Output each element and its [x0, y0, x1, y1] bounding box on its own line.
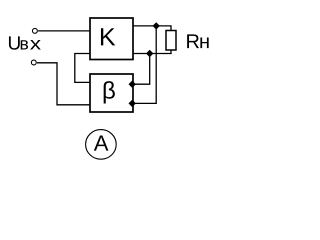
junction dot node 3 — [129, 81, 136, 88]
amplifier block K — [90, 18, 133, 60]
feedback block β — [90, 74, 133, 112]
wire bottom terminal to beta lower input — [37, 63, 90, 105]
label Uвх (input voltage) — [9, 36, 41, 49]
sub-figure label A — [86, 130, 117, 160]
junction dot node 2 — [146, 50, 153, 57]
resistor Rн — [166, 31, 176, 51]
wire K upper output to resistor top — [133, 26, 171, 31]
wire K lower output to resistor bottom — [133, 50, 171, 54]
wire K lower input to beta upper input — [75, 54, 90, 83]
junction dot node 1 — [153, 22, 160, 29]
label Rн (load resistance) — [187, 34, 209, 48]
wire bottom node down to beta upper-right pin — [132, 54, 150, 85]
wire top node down to beta lower-right pin — [132, 26, 156, 104]
junction dot node 4 — [129, 100, 136, 107]
wire top terminal to K upper input — [38, 30, 90, 32]
input terminal top — [32, 28, 37, 33]
input terminal bottom — [31, 60, 36, 65]
